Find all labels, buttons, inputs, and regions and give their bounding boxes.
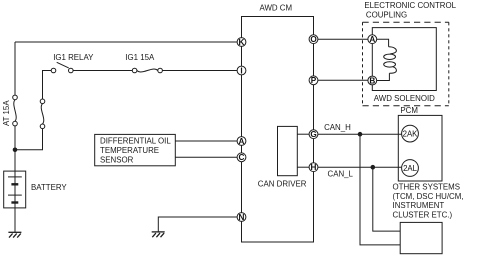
svg-text:TEMPERATURE: TEMPERATURE [100,146,159,155]
svg-text:CLUSTER ETC.): CLUSTER ETC.) [393,211,453,220]
svg-text:B: B [369,76,375,85]
svg-text:IG1 RELAY: IG1 RELAY [53,53,94,62]
svg-text:COUPLING: COUPLING [366,10,407,19]
svg-text:PCM: PCM [400,106,418,115]
svg-text:CAN_H: CAN_H [324,123,351,132]
svg-text:O: O [310,35,317,44]
svg-text:I: I [240,66,242,75]
svg-text:N: N [239,213,245,222]
svg-text:A: A [239,137,245,146]
svg-text:ELECTRONIC CONTROL: ELECTRONIC CONTROL [364,1,456,10]
svg-text:H: H [311,163,317,172]
svg-text:2AL: 2AL [403,164,418,173]
svg-text:OTHER SYSTEMS: OTHER SYSTEMS [393,182,461,191]
svg-text:DIFFERENTIAL OIL: DIFFERENTIAL OIL [100,137,171,146]
svg-text:K: K [239,38,245,47]
svg-text:SENSOR: SENSOR [100,156,134,165]
svg-text:CAN_L: CAN_L [328,170,354,179]
svg-text:INSTRUMENT: INSTRUMENT [393,201,445,210]
svg-text:AWD CM: AWD CM [260,4,293,13]
svg-text:A: A [369,35,375,44]
svg-text:BATTERY: BATTERY [31,183,67,192]
svg-text:G: G [310,130,316,139]
svg-text:2AK: 2AK [403,130,419,139]
svg-text:AT 15A: AT 15A [2,100,11,126]
svg-text:CAN DRIVER: CAN DRIVER [258,180,307,189]
svg-text:AWD SOLENOID: AWD SOLENOID [374,94,435,103]
svg-text:(TCM, DSC HU/CM,: (TCM, DSC HU/CM, [393,192,464,201]
svg-text:IG1 15A: IG1 15A [125,53,155,62]
svg-text:C: C [239,153,245,162]
svg-text:P: P [311,76,317,85]
